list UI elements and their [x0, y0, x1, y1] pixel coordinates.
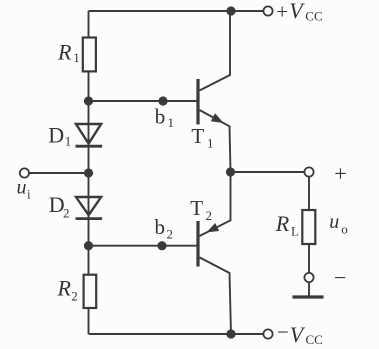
- svg-text:−: −: [277, 320, 289, 344]
- svg-text:1: 1: [168, 115, 175, 130]
- svg-text:CC: CC: [305, 9, 322, 24]
- svg-text:b: b: [155, 215, 166, 239]
- svg-text:u: u: [329, 211, 339, 233]
- svg-text:L: L: [291, 223, 299, 238]
- svg-text:R: R: [275, 211, 290, 236]
- svg-text:2: 2: [167, 226, 174, 241]
- svg-text:2: 2: [71, 288, 78, 303]
- svg-text:o: o: [341, 221, 348, 236]
- svg-text:u: u: [17, 177, 27, 199]
- svg-text:T: T: [191, 124, 204, 148]
- svg-text:R: R: [57, 39, 72, 64]
- svg-text:CC: CC: [306, 332, 323, 347]
- svg-text:+: +: [334, 161, 346, 186]
- svg-text:b: b: [155, 104, 166, 128]
- svg-text:−: −: [334, 265, 346, 290]
- svg-text:i: i: [27, 187, 31, 202]
- svg-text:2: 2: [206, 208, 213, 223]
- svg-text:1: 1: [207, 135, 214, 150]
- svg-text:D: D: [48, 122, 64, 147]
- svg-text:2: 2: [63, 206, 70, 221]
- svg-text:T: T: [190, 196, 203, 220]
- svg-text:+: +: [276, 0, 288, 23]
- svg-text:1: 1: [65, 134, 72, 149]
- svg-text:1: 1: [73, 50, 80, 65]
- svg-text:R: R: [57, 275, 72, 300]
